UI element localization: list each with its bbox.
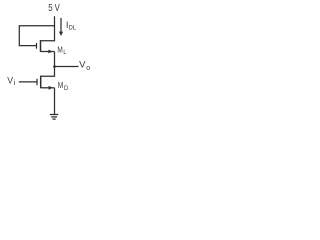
transistor M_L channel bar bbox=[40, 40, 42, 52]
ground bbox=[50, 115, 59, 120]
wire Vi gate lead bbox=[19, 81, 37, 83]
label Vi bbox=[7, 76, 16, 88]
wire M_L source rail down to M_D drain stub bbox=[41, 52, 55, 77]
transistor M_L source stub with arrow bbox=[41, 51, 55, 53]
label M_L bbox=[57, 45, 66, 57]
wire M_D source rail down to ground bbox=[54, 88, 56, 115]
node Vo junction dot bbox=[53, 65, 56, 68]
svg-text:DL: DL bbox=[69, 24, 77, 31]
transistor M_D channel bar bbox=[40, 76, 42, 89]
current arrow I_DL bbox=[59, 18, 63, 36]
svg-text:o: o bbox=[86, 63, 90, 72]
label M_D bbox=[58, 80, 69, 92]
wire supply rail down to M_L drain stub bbox=[41, 16, 55, 40]
node 5V supply label bbox=[48, 3, 60, 14]
label I_DL bbox=[66, 19, 76, 32]
svg-text:M: M bbox=[57, 45, 62, 55]
svg-text:M: M bbox=[58, 80, 64, 90]
transistor M_D gate bar bbox=[36, 79, 38, 85]
transistor M_D source stub with arrow bbox=[41, 87, 55, 89]
transistor M_L gate bar bbox=[36, 43, 38, 49]
svg-text:i: i bbox=[14, 78, 16, 87]
svg-text:D: D bbox=[64, 85, 69, 92]
svg-text:L: L bbox=[63, 49, 66, 56]
wire Vo lead bbox=[55, 66, 79, 68]
svg-text:5 V: 5 V bbox=[48, 3, 60, 14]
label Vo bbox=[79, 59, 90, 72]
wire gate-drain loop of M_L bbox=[19, 26, 54, 46]
svg-text:V: V bbox=[7, 76, 14, 86]
